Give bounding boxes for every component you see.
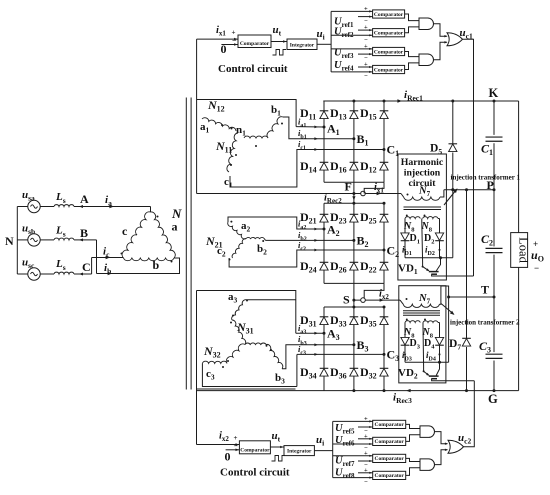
svg-text:Comparator: Comparator	[375, 439, 405, 445]
bridge1 left column	[323, 101, 325, 182]
wire Uref1 to cmp1	[358, 16, 373, 18]
annotation arrow inj2	[441, 304, 454, 315]
and gate bottom2	[420, 459, 435, 471]
svg-text:injection: injection	[404, 167, 441, 178]
wire VD2 base from u_c2	[432, 379, 475, 381]
ac source u_sc	[17, 273, 28, 275]
svg-text:+: +	[364, 467, 368, 474]
bridge1 mid column	[353, 101, 355, 182]
wire comparator to integrator bottom	[270, 446, 284, 448]
svg-text:0: 0	[225, 450, 231, 464]
wire N8-2 left lead	[404, 323, 406, 338]
svg-text:C: C	[82, 260, 91, 274]
diode D23	[350, 213, 359, 215]
winding N31 lower	[232, 320, 246, 345]
diode D7	[462, 337, 471, 339]
bridge3 mid column	[353, 307, 355, 391]
winding b2 horizontal	[246, 237, 264, 238]
u_i branch vertical bottom	[332, 421, 334, 477]
capacitor column C1-P	[493, 143, 495, 189]
diode D25	[380, 213, 389, 215]
injection2 junction wire	[405, 361, 449, 363]
transformer 3 box	[197, 291, 296, 334]
wire Uref2 to cmp2	[358, 29, 373, 31]
transformer 1 box	[197, 100, 297, 127]
diode D35	[380, 316, 389, 318]
bridge2 mid column	[353, 203, 355, 283]
wire N7-1 to P rail	[440, 190, 444, 197]
diode D2	[435, 240, 444, 242]
diode D5 column	[452, 101, 454, 144]
wire i_x2 into comparator	[197, 444, 240, 446]
svg-text:Integrator: Integrator	[287, 449, 312, 455]
P rail	[444, 189, 494, 191]
transformer core bar right	[190, 98, 192, 390]
transformer core bar left	[185, 98, 187, 390]
winding N31 a3 upper	[232, 300, 246, 320]
and gate bottom1	[420, 426, 435, 438]
diode D21	[320, 213, 329, 215]
svg-text:+: +	[364, 415, 368, 422]
wire cmp8 to and2b	[406, 468, 420, 476]
wire integrator out	[317, 43, 331, 45]
svg-text:Comparator: Comparator	[375, 422, 405, 428]
wire F from bridge1	[353, 182, 355, 193]
injection transformer1 secondary N8 right	[423, 217, 438, 219]
injection transformer1 primary N7	[401, 194, 404, 198]
wire u_i to cmp5	[333, 420, 373, 422]
wire c1 exit	[230, 150, 384, 188]
svg-text:a: a	[172, 220, 178, 234]
capacitor column T-C3	[493, 297, 495, 352]
bridge2 left column	[323, 203, 325, 283]
svg-text:+: +	[364, 433, 368, 440]
svg-text:+: +	[364, 61, 368, 68]
wire u_c2 up to VD2	[464, 381, 475, 447]
node A2	[323, 228, 326, 231]
diode D3	[401, 344, 410, 346]
wire Uref3 to cmp3	[358, 53, 373, 55]
diode D31	[320, 316, 329, 318]
wire comparator to integrator	[271, 41, 287, 43]
wire N8 right lead	[439, 219, 441, 233]
wire u_i to cmp7	[333, 455, 373, 457]
pulse symbol bottom	[272, 456, 286, 462]
bridge1 bottom rail	[324, 181, 384, 183]
svg-text:Comparator: Comparator	[374, 67, 404, 73]
svg-text:Comparator: Comparator	[374, 49, 404, 55]
wire Uref6 to cmp6	[358, 438, 373, 440]
diode D26	[350, 261, 359, 263]
diode D11	[320, 110, 329, 112]
three-phase neutral bus N	[16, 207, 18, 275]
comparator ref8	[373, 471, 406, 479]
and gate top1	[419, 18, 434, 30]
wire i_c to delta	[92, 257, 124, 259]
delta polarity dots	[157, 216, 159, 218]
svg-text:Comparator: Comparator	[375, 456, 405, 462]
wire and1 to or	[434, 24, 447, 37]
injection transformer1 secondary N8 left	[405, 217, 420, 219]
wire and2 to or	[434, 42, 447, 59]
svg-text:Load: Load	[517, 237, 531, 263]
load wire top	[518, 101, 520, 233]
winding N12 a1-n1	[202, 118, 236, 131]
wire i_x2 sense line	[354, 299, 400, 301]
svg-text:injection transformer 2: injection transformer 2	[450, 319, 520, 327]
ac source u_sb	[17, 239, 28, 241]
inductor L_s phase c	[54, 272, 74, 274]
diode D16	[350, 161, 359, 163]
annotation arrow inj1	[444, 190, 457, 206]
svg-text:Control circuit: Control circuit	[218, 63, 288, 75]
svg-text:−: −	[364, 479, 368, 486]
bridge1 top rail (K rail)	[323, 100, 518, 102]
diode D15	[380, 110, 389, 112]
wire Uref4 to cmp4	[358, 66, 373, 68]
diode D33	[350, 316, 359, 318]
wire N8-2 right lead	[439, 323, 441, 338]
injection transformer1 core	[404, 206, 442, 208]
wire i_x1 into comparator	[197, 38, 238, 40]
winding c2	[232, 239, 246, 258]
wire cmp3 to and2	[405, 52, 419, 57]
inductor L_s phase a	[54, 205, 74, 207]
wire cmp1 to and1	[405, 14, 419, 21]
winding center to b1 horizontal	[244, 136, 268, 138]
or gate top	[447, 33, 463, 46]
integrator top	[287, 39, 317, 50]
diode D7 column	[466, 190, 468, 338]
integrator bottom	[284, 446, 314, 456]
svg-text:injection transformer 1: injection transformer 1	[451, 174, 521, 182]
wire integrator out bottom	[314, 450, 332, 452]
transformer1 polarity dots	[221, 124, 223, 126]
wire a3 exit	[246, 299, 296, 301]
injection transformer2 secondary N8 left	[405, 321, 420, 323]
node B1	[352, 137, 355, 140]
or gate bottom	[448, 440, 464, 453]
svg-text:Comparator: Comparator	[374, 12, 404, 18]
capacitor column C2-T	[493, 255, 495, 297]
winding to b1	[267, 117, 283, 138]
comparator ref4	[373, 65, 405, 73]
wire N7-2 to T rail	[440, 286, 449, 304]
comparator ref2	[373, 29, 405, 37]
wire u_i to cmp4	[331, 71, 373, 73]
wire a2 top path	[228, 217, 324, 229]
svg-text:Integrator: Integrator	[290, 43, 315, 49]
comparator main bottom	[239, 441, 270, 454]
svg-text:Comparator: Comparator	[240, 41, 270, 47]
injection transformer2 core	[403, 310, 440, 312]
wire c2 exit	[229, 250, 384, 267]
wire c3 exit	[202, 363, 297, 386]
wire cmp7 to and2b	[406, 458, 420, 461]
injection transformer2 primary N7	[400, 300, 403, 304]
svg-text:G: G	[488, 392, 498, 406]
wire C up to c-rail	[91, 258, 93, 275]
wire S from bridge2	[353, 283, 355, 300]
wire u_c1 down to VD1	[463, 39, 474, 276]
delta winding side c	[122, 212, 150, 258]
comparator ref7	[373, 454, 406, 462]
node A1	[323, 126, 326, 129]
bridge3 top rail	[324, 306, 384, 308]
svg-text:N: N	[5, 234, 14, 248]
svg-text:Comparator: Comparator	[240, 448, 270, 454]
comparator ref5	[373, 420, 406, 428]
injection2 centre tap	[422, 323, 424, 327]
svg-text:A: A	[80, 192, 89, 206]
and gate top2	[419, 54, 434, 66]
svg-text:B: B	[80, 226, 88, 240]
diode D22	[380, 261, 389, 263]
diode D5	[449, 143, 458, 145]
wire VD1 base from u_c1	[432, 274, 474, 276]
svg-text:Harmonic: Harmonic	[401, 157, 444, 168]
node B2	[352, 239, 355, 242]
comparator ref3	[373, 47, 405, 55]
comparator ref1	[373, 10, 405, 18]
wire and2b to orb	[435, 450, 448, 465]
bridge2 right column	[383, 203, 385, 283]
bridge2 top rail	[324, 202, 384, 204]
svg-text:Comparator: Comparator	[375, 473, 405, 479]
node C1	[383, 148, 386, 151]
pulse symbol top	[273, 50, 287, 56]
node C2	[383, 249, 386, 252]
comparator ref6	[373, 437, 406, 445]
winding c3 horizontal	[202, 361, 227, 363]
svg-text:+: +	[364, 43, 368, 50]
wire Uref8 to cmp8	[358, 472, 373, 474]
node A3	[323, 332, 326, 335]
svg-text:Control circuit: Control circuit	[220, 467, 290, 479]
bridge1 right column	[383, 101, 385, 182]
wire cmp4 to and2	[405, 63, 419, 70]
capacitor string column upper	[493, 101, 495, 135]
svg-text:−: −	[364, 73, 368, 80]
wire 0 into comparator	[221, 44, 238, 46]
wire Uref5 to cmp5	[358, 426, 373, 428]
diode D13	[350, 110, 359, 112]
wire A to delta apex	[150, 207, 152, 213]
svg-text:+: +	[364, 5, 368, 12]
svg-text:S: S	[343, 293, 350, 307]
node C3	[383, 353, 386, 356]
wire N8 left lead	[404, 219, 406, 233]
injection circuit 2 box	[399, 286, 446, 383]
comparator main top	[238, 35, 271, 48]
load box	[511, 233, 528, 268]
wire b1 to bridge1 B1	[283, 117, 354, 139]
transformer3 polarity dots	[232, 315, 234, 317]
capacitor column P-C2	[493, 190, 495, 247]
capacitor C3	[486, 353, 503, 355]
ac source u_sa	[17, 206, 28, 208]
winding to c3 diagonal	[226, 344, 245, 363]
delta winding side a	[151, 212, 176, 258]
wire u_i to cmp8	[333, 477, 373, 479]
wire cmp2 to and1	[405, 27, 419, 33]
diode D32	[380, 367, 389, 369]
injection1 junction wire	[405, 257, 453, 259]
jog bridge2 rail to sensor	[364, 283, 384, 300]
svg-text:Comparator: Comparator	[374, 31, 404, 37]
diode D36	[350, 367, 359, 369]
inductor L_s phase b	[54, 238, 74, 240]
wire B down to b-rail	[96, 240, 98, 274]
svg-text:T: T	[481, 283, 489, 297]
wire b3 to bridge3	[282, 345, 354, 369]
wire a1 exit to A1	[296, 126, 324, 128]
wire cmp5 to and1b	[406, 424, 420, 428]
diode D4	[435, 344, 444, 346]
u_i branch vertical top	[330, 11, 332, 72]
svg-text:−: −	[534, 263, 539, 273]
bridge3 left column	[323, 307, 325, 391]
svg-text:+: +	[364, 450, 368, 457]
capacitor C1	[486, 136, 503, 138]
bottom rail G	[197, 390, 519, 392]
wire Uref7 to cmp7	[358, 460, 373, 462]
diode D34	[320, 367, 329, 369]
winding center horizontal	[245, 343, 266, 345]
wire i_x1 feedback to top control	[196, 39, 198, 193]
wire cmp6 to and1b	[406, 435, 420, 442]
wire u_i to cmp1	[331, 10, 373, 12]
wire i_b rail to delta	[97, 258, 180, 274]
bridge3 right column	[383, 307, 385, 391]
jog bridge1 rail to sensor	[364, 182, 384, 193]
wire S to bridge3	[353, 300, 355, 307]
capacitor C2	[486, 247, 503, 249]
current sensor i_x1	[361, 191, 366, 196]
bridge2 bottom rail	[324, 282, 384, 284]
svg-text:F: F	[345, 180, 352, 194]
injection transformer2 secondary N8 right	[423, 321, 438, 323]
harmonic injection circuit box	[398, 154, 447, 280]
svg-text:c: c	[122, 224, 128, 238]
transformer2 polarity dots	[230, 221, 232, 223]
winding to b3	[266, 344, 283, 368]
diode D1	[401, 240, 410, 242]
svg-text:b: b	[153, 258, 160, 272]
diode D14	[320, 161, 329, 163]
injection1 centre tap	[421, 219, 423, 223]
wire u_i to cmp3	[331, 48, 373, 50]
capacitor column C3-G	[493, 361, 495, 391]
wire b2 to bridge2	[264, 239, 265, 241]
load wire bottom	[518, 267, 520, 390]
wire 0 into comparator bottom	[226, 449, 240, 451]
wire u_i to cmp6	[333, 443, 373, 445]
delta winding side b	[124, 258, 175, 261]
T rail	[449, 296, 494, 298]
wire i_x1 sense line	[197, 193, 401, 195]
winding N11 n1-c1	[227, 133, 238, 172]
node B3	[352, 343, 355, 346]
diode D24	[320, 261, 329, 263]
current sensor i_x2	[361, 298, 366, 303]
wire and1b to orb	[435, 432, 448, 444]
wire i_x2 feedback to bottom control	[196, 291, 198, 445]
wire F to bridge2	[353, 194, 355, 204]
svg-text:K: K	[489, 86, 499, 100]
diode D12	[380, 161, 389, 163]
svg-text:+: +	[364, 24, 368, 31]
wire u_i to cmp2	[331, 34, 373, 36]
winding a2	[228, 222, 246, 239]
